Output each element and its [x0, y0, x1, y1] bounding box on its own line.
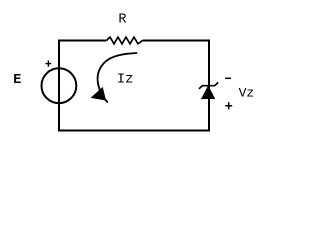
Iz current arrow (curved arc)	[98, 53, 137, 102]
plus sign of source	[46, 60, 52, 66]
plus sign at zener anode	[225, 102, 232, 109]
svg-text:R: R	[118, 12, 126, 27]
svg-text:Vz: Vz	[239, 85, 255, 100]
zener diode anode triangle (filled)	[202, 86, 215, 98]
minus sign at zener cathode	[225, 77, 231, 79]
svg-text:Iz: Iz	[117, 72, 134, 88]
Iz arrowhead	[92, 88, 106, 100]
svg-text:E: E	[13, 73, 21, 88]
voltage source E (circle)	[42, 68, 77, 103]
wire loop (left, bottom, right, top segments)	[59, 41, 209, 131]
zener diode cathode bar with bent ends	[199, 82, 218, 89]
resistor R (zigzag)	[107, 37, 143, 44]
